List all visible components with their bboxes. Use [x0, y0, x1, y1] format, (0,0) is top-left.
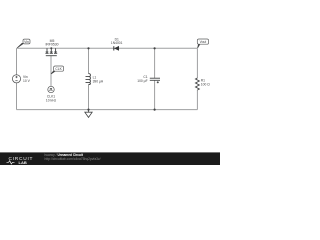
- junction top capacitor node: [154, 47, 156, 49]
- svg-text:http://circuitlab.com/c4xa75hq: http://circuitlab.com/c4xa75hq2pvfa3z/: [45, 157, 101, 161]
- svg-text:Vin: Vin: [24, 40, 29, 44]
- resistor R1: [196, 78, 200, 90]
- junction top inductor node: [87, 47, 89, 49]
- diode D1 1N4001: [114, 46, 119, 51]
- wire inductor branch: [88, 48, 90, 109]
- svg-text:IRF9530: IRF9530: [45, 43, 58, 47]
- node CLK flag: [51, 66, 64, 74]
- svg-text:Vout: Vout: [200, 40, 207, 44]
- svg-text:100 µF: 100 µF: [137, 79, 147, 83]
- footer bar: [0, 152, 220, 165]
- node Vout flag: [197, 39, 208, 48]
- wire gate branch: [50, 56, 52, 86]
- svg-text:CLK: CLK: [55, 67, 62, 71]
- inductor L1: [86, 74, 91, 85]
- capacitor C1: [150, 78, 160, 83]
- voltage source Vin: [12, 75, 20, 83]
- wire bottom rail: [17, 109, 198, 111]
- wire capacitor branch: [154, 48, 156, 109]
- junction bottom capacitor node: [154, 109, 156, 111]
- node Vin flag: [17, 39, 30, 48]
- svg-text:10 V: 10 V: [23, 79, 31, 83]
- footer CircuitLab logo: [7, 156, 34, 165]
- svg-text:1N4001: 1N4001: [111, 41, 123, 45]
- svg-text:390 µH: 390 µH: [93, 79, 104, 83]
- junction bottom ground node: [87, 109, 89, 111]
- svg-text:LAB: LAB: [19, 160, 27, 165]
- clock source CLK1: [48, 86, 54, 92]
- ground: [85, 110, 92, 118]
- wire left branch: [16, 48, 18, 109]
- svg-text:10 kHz: 10 kHz: [46, 98, 57, 102]
- transistor M5 PMOS IRF9530: [45, 47, 57, 55]
- wire top rail: [17, 47, 198, 49]
- svg-text:100 Ω: 100 Ω: [201, 82, 210, 86]
- wire right branch: [196, 48, 198, 109]
